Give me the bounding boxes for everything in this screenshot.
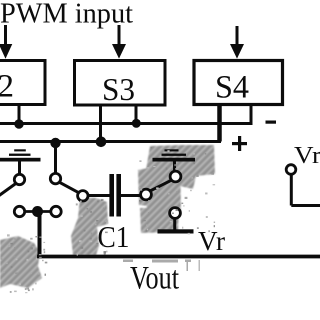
wire: Vr terminal to right edge bbox=[291, 204, 320, 207]
wire: C1 right plate to pole G bbox=[120, 194, 140, 197]
switch pole contact G (right assembly) bbox=[141, 189, 152, 200]
inverted ground symbol G1 (left) bbox=[0, 149, 41, 161]
capacitor C1 plates bbox=[109, 174, 121, 217]
switch bottom contact D bbox=[14, 206, 24, 216]
svg-text:Vr: Vr bbox=[294, 143, 320, 169]
terminal circle Vr bbox=[286, 165, 296, 175]
wire: S2 bottom terminal bbox=[18, 104, 21, 124]
PWM arrow 2 (into S3) bbox=[113, 25, 125, 58]
wire: S3 right terminal bbox=[135, 104, 138, 124]
wire: stem E down to Vout rail bbox=[38, 214, 42, 257]
wire: C to C1 left plate bbox=[88, 194, 110, 197]
switch bottom contact F bbox=[51, 206, 61, 216]
label: minus sign near S4 right terminal bbox=[266, 121, 277, 124]
faint scan ticks under Vout rail bbox=[123, 260, 200, 272]
switch block S2 (cropped at left edge) bbox=[0, 61, 45, 105]
svg-text:C1: C1 bbox=[98, 219, 130, 254]
wire: S4 right terminal bbox=[250, 104, 253, 124]
PWM arrow 3 (into S4) bbox=[231, 26, 243, 58]
inverted ground symbol G2 (middle) bbox=[153, 149, 196, 161]
wire: Vout rail bbox=[37, 255, 320, 259]
scan-noise gray patch left bottom bbox=[0, 236, 42, 288]
switch throw contact A (left) bbox=[14, 174, 24, 184]
switch throw contact H bbox=[170, 171, 181, 182]
PWM arrow 1 (into S2) bbox=[0, 25, 12, 58]
wire: G2 stem down to throw H bbox=[173, 161, 176, 171]
junction dot E (pole to Vout) bbox=[32, 206, 43, 217]
scan-noise gray patch around right switch bbox=[138, 145, 215, 233]
scan speckle noise bbox=[1, 147, 216, 293]
junction dot Y2 / left switch stem bbox=[50, 138, 60, 148]
wire: stem I down to Vr bar bbox=[173, 218, 176, 230]
switch pole contact C bbox=[78, 191, 88, 201]
switch lever G to H bbox=[151, 180, 172, 190]
switch block S4 bbox=[194, 61, 283, 106]
wire: S4 left terminal (thick) bbox=[217, 104, 222, 142]
switch block S3 bbox=[75, 61, 166, 108]
svg-text:S4: S4 bbox=[215, 70, 249, 106]
wire: G1 stem down to switch throw bbox=[18, 161, 21, 175]
wire: rail Y1 bbox=[0, 122, 253, 125]
svg-text:S3: S3 bbox=[102, 71, 135, 107]
svg-text:Vr: Vr bbox=[198, 226, 225, 256]
svg-text:2: 2 bbox=[0, 69, 14, 105]
wire: rail Y2 bbox=[0, 140, 221, 143]
switch lever from A toward cropped left bbox=[0, 184, 16, 198]
junction dot S3-left/Y2 bbox=[96, 137, 107, 148]
switch throw contact B bbox=[50, 173, 60, 183]
Vr rail bar bbox=[158, 229, 194, 233]
junction dot S2/Y1 bbox=[14, 119, 23, 128]
wire: bottom row link bbox=[25, 210, 52, 213]
scan-noise gray band left of C1 bbox=[71, 197, 108, 255]
wire: stem Y2 down to throw B bbox=[54, 143, 57, 173]
svg-text:Vout: Vout bbox=[130, 261, 179, 297]
switch lever B to C bbox=[60, 182, 79, 192]
svg-text:PWM input: PWM input bbox=[0, 0, 133, 30]
label: plus sign near S4 left terminal bbox=[232, 136, 247, 151]
wire: Vr terminal down bbox=[290, 175, 293, 206]
junction dot S3-right/Y1 bbox=[132, 119, 141, 128]
switch throw contact I (lower) bbox=[170, 208, 181, 219]
wire: S3 left terminal bbox=[99, 104, 102, 142]
